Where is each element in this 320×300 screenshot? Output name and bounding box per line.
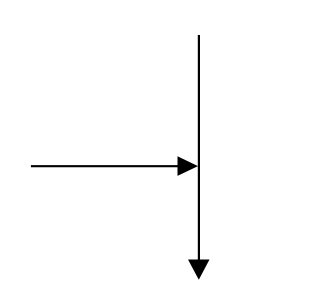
wire vertical (198, 35, 200, 261)
arrowhead down (188, 260, 210, 280)
wire horizontal (31, 165, 179, 167)
arrowhead right (178, 156, 199, 176)
